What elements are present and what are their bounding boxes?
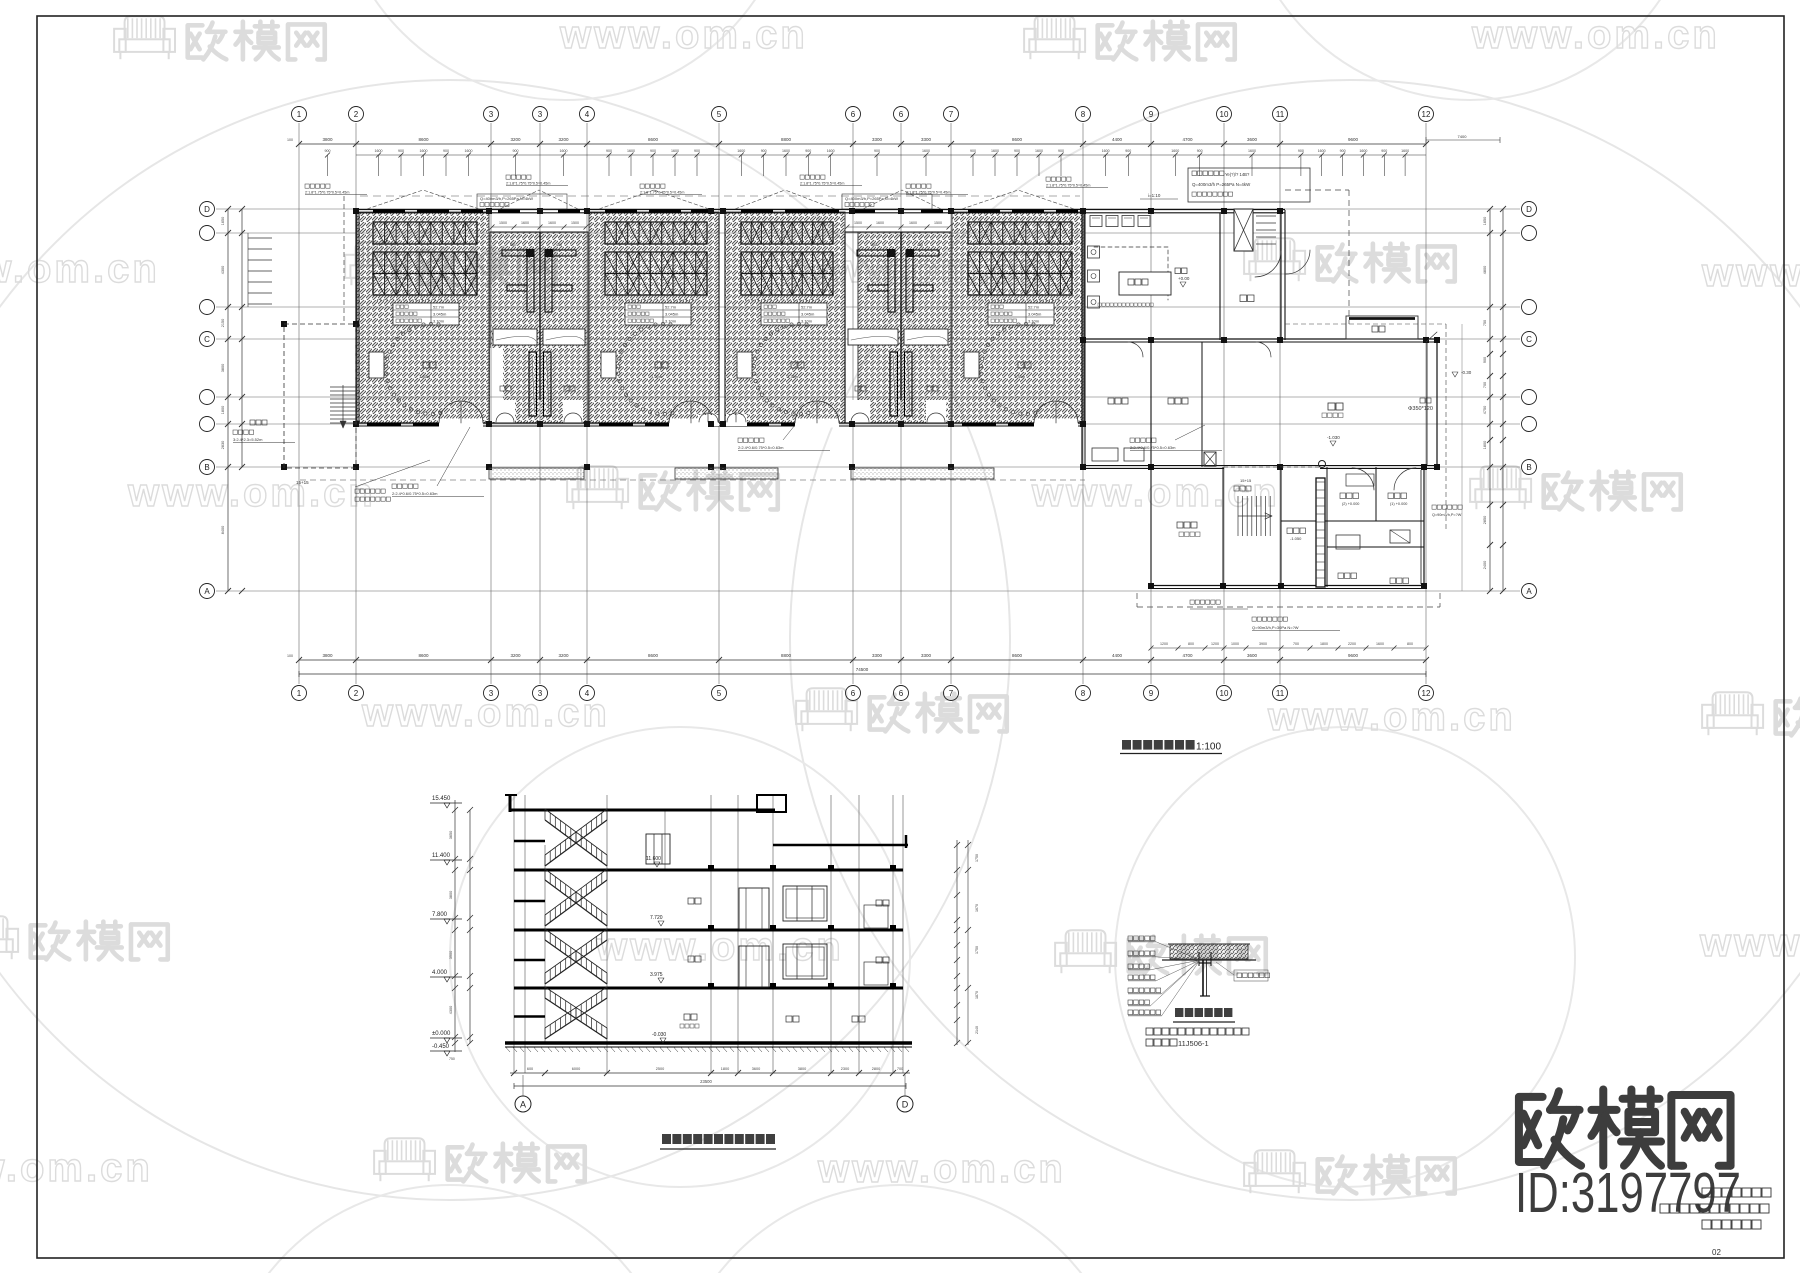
svg-text:1800: 1800 (1320, 642, 1328, 646)
svg-text:1600: 1600 (375, 149, 383, 153)
svg-text:11.400: 11.400 (432, 853, 451, 859)
svg-text:8: 8 (1081, 110, 1086, 119)
classroom 4 door (1034, 401, 1078, 428)
svg-text:Q=400m3/h P=265Pa N=4kW: Q=400m3/h P=265Pa N=4kW (1192, 182, 1251, 187)
axis bubbles right (1522, 202, 1537, 599)
svg-text:3:2.4*2.3=5.52m: 3:2.4*2.3=5.52m (233, 437, 263, 442)
classroom 2 bottom wall sills (599, 423, 677, 427)
svg-text:9600: 9600 (1348, 137, 1359, 142)
svg-text:+0.00: +0.00 (1178, 276, 1190, 281)
top wall sill segments (373, 209, 1078, 212)
svg-text:4400: 4400 (1112, 137, 1123, 142)
section: windows right rooms (783, 886, 827, 979)
svg-text:3300: 3300 (872, 653, 883, 658)
bottom leader annotations (233, 425, 1222, 501)
section: room labels (680, 898, 889, 1028)
svg-text:1.35m: 1.35m (787, 374, 799, 379)
svg-text:3.975: 3.975 (650, 972, 663, 978)
hatched classroom 2 (589, 212, 719, 423)
svg-text:1800: 1800 (721, 1067, 729, 1071)
office labels (1177, 474, 1410, 584)
svg-text:02: 02 (1712, 1248, 1721, 1257)
svg-text:2:2.4*0.6/0.75*0.5=0.63m: 2:2.4*0.6/0.75*0.5=0.63m (392, 491, 438, 496)
svg-text:1600: 1600 (1401, 149, 1409, 153)
svg-text:800: 800 (1407, 642, 1413, 646)
lower wing outer walls (1151, 467, 1424, 589)
skylight symbols (360, 190, 1080, 209)
toilet unit 2 vestibule dims (845, 221, 952, 230)
svg-text:5: 5 (717, 689, 722, 698)
dining room label (1240, 295, 1247, 302)
svg-text:7: 7 (949, 689, 954, 698)
svg-text:600: 600 (527, 1067, 533, 1071)
svg-text:7.720: 7.720 (650, 915, 663, 921)
svg-text:3900: 3900 (1259, 642, 1267, 646)
svg-text:8600: 8600 (648, 137, 659, 142)
svg-text:10: 10 (1220, 689, 1229, 698)
stair flight story 4 (514, 987, 607, 1039)
svg-text:1600: 1600 (909, 221, 917, 225)
svg-text:4300: 4300 (221, 266, 225, 274)
svg-text:52.7m: 52.7m (1028, 305, 1040, 310)
svg-text:2:1.8*1.75*0.75*0.5=0.45m: 2:1.8*1.75*0.75*0.5=0.45m (640, 191, 684, 195)
toilet unit 2 doors (850, 400, 946, 423)
pantry labels (1092, 398, 1216, 466)
classroom 4 teacher desk (964, 352, 979, 378)
svg-text:3.045m: 3.045m (665, 312, 679, 317)
axis bubbles bottom (292, 686, 1434, 701)
svg-text:1670: 1670 (975, 904, 979, 912)
svg-text:900: 900 (1197, 149, 1203, 153)
svg-text:1600: 1600 (1035, 149, 1043, 153)
entrance platform dashed (284, 324, 356, 468)
svg-text:-0.450: -0.450 (432, 1044, 450, 1050)
svg-text:Φ350*120: Φ350*120 (1408, 406, 1433, 412)
detail title (1173, 1008, 1235, 1022)
section: level marks left (430, 796, 462, 1056)
detail notes (1146, 1028, 1249, 1048)
lower wing partitions (1223, 467, 1424, 587)
svg-text:2:1.8*1.75*0.75*0.5=0.45m: 2:1.8*1.75*0.75*0.5=0.45m (906, 191, 950, 195)
section: floor slabs (514, 870, 903, 988)
svg-text:11.600: 11.600 (646, 856, 661, 862)
svg-text:-1.030: -1.030 (1327, 435, 1340, 440)
toilet unit 2 duct chases (857, 243, 939, 312)
svg-text:2: 2 (354, 110, 359, 119)
formula box (1188, 168, 1310, 202)
svg-text:www.om.cn: www.om.cn (1699, 921, 1800, 965)
svg-text:1870: 1870 (975, 991, 979, 999)
svg-text:52.7m: 52.7m (433, 305, 445, 310)
toilet unit 2 lower ducts (855, 352, 938, 416)
svg-text:11: 11 (1276, 689, 1285, 698)
svg-text:www.om.cn: www.om.cn (559, 13, 808, 57)
svg-text:4700: 4700 (1182, 653, 1193, 658)
svg-text:3200: 3200 (510, 137, 521, 142)
canopy dashed top right (1140, 190, 1349, 324)
detail: right label (1216, 962, 1270, 981)
dining room door arc (1255, 251, 1281, 277)
svg-text:6000: 6000 (572, 1067, 580, 1071)
svg-text:1600: 1600 (1318, 149, 1326, 153)
svg-text:2:2.4*0.6/0.75*0.5=0.63m: 2:2.4*0.6/0.75*0.5=0.63m (738, 445, 784, 450)
detail: leader labels (1128, 936, 1200, 1016)
stair flight story 3 (514, 929, 607, 984)
svg-text:Ye(?)/? 14B?: Ye(?)/? 14B? (1225, 172, 1250, 177)
svg-text:3200: 3200 (558, 653, 569, 658)
classroom 1 area table (393, 303, 459, 325)
svg-text:700: 700 (1293, 642, 1299, 646)
exterior wall top (356, 209, 1285, 211)
svg-text:3800: 3800 (221, 364, 225, 372)
svg-text:750: 750 (1483, 320, 1487, 326)
plan title (1120, 740, 1222, 754)
svg-text:Q=400m3/h,P=265Pa,N=4kW: Q=400m3/h,P=265Pa,N=4kW (845, 196, 898, 201)
toilet unit 2 center wall (900, 232, 902, 400)
svg-text:900: 900 (874, 149, 880, 153)
hatched classroom 1 (357, 212, 489, 423)
vestibule formulas (477, 194, 932, 209)
kitchen walls (1085, 210, 1437, 342)
svg-text:3600: 3600 (752, 1067, 760, 1071)
svg-text:8600: 8600 (418, 653, 429, 658)
svg-text:7: 7 (949, 110, 954, 119)
kitchen equipment (1088, 216, 1190, 309)
B-line dashes (300, 479, 1085, 481)
hatched classroom 3 (725, 212, 845, 423)
svg-text:www.om.cn: www.om.cn (0, 1146, 153, 1190)
svg-text:3650: 3650 (449, 831, 453, 839)
svg-text:3800: 3800 (449, 891, 453, 899)
svg-text:1600: 1600 (1171, 149, 1179, 153)
svg-text:A: A (520, 1100, 526, 1110)
svg-text:Q=90m3/h,P=?W: Q=90m3/h,P=?W (1432, 513, 1462, 517)
svg-text:D: D (204, 205, 210, 214)
svg-text:www.om.cn: www.om.cn (127, 471, 376, 515)
svg-text:12: 12 (1422, 689, 1431, 698)
svg-text:450: 450 (871, 243, 877, 247)
section: ground slab (505, 1043, 912, 1052)
svg-text:-0.30: -0.30 (1461, 370, 1472, 375)
svg-text:900: 900 (650, 149, 656, 153)
svg-text:2200: 2200 (1348, 642, 1356, 646)
svg-text:1650: 1650 (1483, 217, 1487, 225)
svg-text:3800: 3800 (798, 1067, 806, 1071)
classroom 4 area table (988, 303, 1054, 325)
svg-text:900: 900 (1014, 149, 1020, 153)
svg-text:4700: 4700 (1182, 137, 1193, 142)
svg-text:1600: 1600 (420, 149, 428, 153)
svg-text:900: 900 (606, 149, 612, 153)
svg-text:1600: 1600 (1102, 149, 1110, 153)
svg-text:3.045m: 3.045m (1028, 312, 1042, 317)
svg-text:52.7m: 52.7m (801, 305, 813, 310)
svg-text:2500: 2500 (656, 1067, 664, 1071)
section: level marks inner (646, 856, 666, 1043)
dumbwaiter lift (1234, 209, 1276, 251)
canopy dashed left vertical (343, 196, 345, 324)
svg-text:B: B (1526, 463, 1531, 472)
svg-text:1.35m: 1.35m (1014, 374, 1026, 379)
svg-text:900: 900 (1340, 149, 1346, 153)
svg-text:-0.030: -0.030 (652, 1032, 666, 1038)
svg-text:2: 2 (354, 689, 359, 698)
svg-text:900: 900 (1298, 149, 1304, 153)
section: axis bubbles (515, 1075, 913, 1112)
svg-text:Q=90m3/h,P=30Pa N=?W: Q=90m3/h,P=30Pa N=?W (1252, 625, 1299, 630)
svg-text:3: 3 (538, 110, 543, 119)
svg-text:1600: 1600 (922, 149, 930, 153)
dim 7400 top right (1426, 134, 1500, 143)
svg-text:2:1.8*1.75*0.75*0.5=0.45m: 2:1.8*1.75*0.75*0.5=0.45m (800, 182, 844, 186)
section: bottom dims (510, 1067, 910, 1089)
exterior wall left (355, 210, 357, 427)
svg-text:7400: 7400 (1458, 134, 1468, 139)
hatched toilet unit 1 (490, 232, 588, 423)
svg-text:2:1.8*1.75*0.75*0.5=0.45m: 2:1.8*1.75*0.75*0.5=0.45m (305, 191, 349, 195)
toilet unit 1 counters (493, 329, 585, 345)
titleblock text lines (1660, 1188, 1771, 1257)
svg-text:2150: 2150 (221, 319, 225, 327)
svg-text:1500: 1500 (571, 221, 579, 225)
section: penthouse window (646, 834, 670, 864)
svg-text:15.450: 15.450 (432, 796, 451, 802)
classroom 4 window/bed grid (968, 222, 1072, 300)
svg-text:2140: 2140 (975, 1026, 979, 1034)
axis grid lines (216, 123, 1520, 684)
svg-text:9: 9 (1149, 689, 1154, 698)
svg-text:900: 900 (443, 149, 449, 153)
classroom 2 teacher desk (601, 352, 616, 378)
svg-text:1: 1 (297, 110, 302, 119)
svg-text:6: 6 (899, 689, 904, 698)
svg-text:i=1:10: i=1:10 (1148, 193, 1161, 198)
svg-text:1600: 1600 (627, 149, 635, 153)
svg-text:2800: 2800 (872, 1067, 880, 1071)
svg-text:1.35m: 1.35m (651, 374, 663, 379)
classroom 4 chair circle (979, 322, 1037, 415)
section: toilet partitions (864, 905, 888, 985)
section: beams (708, 865, 896, 989)
svg-text:Q=400m3/h,P=265Pa,N=4kW: Q=400m3/h,P=265Pa,N=4kW (480, 196, 533, 201)
svg-text:800: 800 (1188, 642, 1194, 646)
svg-text:450: 450 (917, 243, 923, 247)
svg-text:www.om.cn: www.om.cn (1701, 251, 1800, 295)
site logo OMW (1519, 1089, 1731, 1165)
classroom 3 window/bed grid (741, 222, 833, 300)
svg-text:900: 900 (1125, 149, 1131, 153)
svg-text:1600: 1600 (521, 221, 529, 225)
entrance stair treads (250, 385, 357, 485)
svg-text:900: 900 (1483, 357, 1487, 363)
svg-text:3600: 3600 (1247, 653, 1258, 658)
svg-text:B: B (204, 463, 209, 472)
svg-text:3: 3 (489, 689, 494, 698)
svg-text:D: D (902, 1100, 909, 1110)
terrace canopy (1346, 316, 1418, 339)
pantry walls (1085, 324, 1462, 591)
svg-text:6: 6 (899, 110, 904, 119)
toilet unit 1 vestibule dims (490, 221, 589, 230)
classroom 1 teacher desk (369, 352, 384, 378)
classroom 3 door (795, 401, 839, 428)
left dimension lines (221, 206, 272, 594)
classroom 3 bottom wall sills (735, 423, 813, 427)
svg-text:3800: 3800 (322, 137, 333, 142)
svg-text:4400: 4400 (1112, 653, 1123, 658)
svg-text:900: 900 (398, 149, 404, 153)
svg-text:1500: 1500 (854, 221, 862, 225)
classroom 1 window/bed grid (373, 222, 477, 300)
classroom 2 chair circle (616, 322, 674, 415)
svg-text:www.om.cn: www.om.cn (1471, 13, 1720, 57)
section: roof slabs (505, 795, 908, 848)
svg-text:(2) +0.000: (2) +0.000 (1342, 502, 1359, 506)
axis bubbles top (292, 107, 1434, 122)
classroom 1 bottom wall sills (367, 423, 445, 427)
svg-text:8600: 8600 (1012, 653, 1023, 658)
section title (660, 1134, 776, 1149)
svg-text:1600: 1600 (876, 221, 884, 225)
toilet unit 1 doors (495, 400, 583, 423)
svg-text:1600: 1600 (991, 149, 999, 153)
svg-text:900: 900 (325, 149, 331, 153)
svg-text:9600: 9600 (1348, 653, 1359, 658)
svg-text:(1) +0.000: (1) +0.000 (1390, 502, 1407, 506)
corridor butterfly doors (698, 413, 747, 426)
walkway strip 3 (851, 468, 994, 479)
svg-text:3200: 3200 (510, 653, 521, 658)
svg-text:11J506-1: 11J506-1 (1178, 1039, 1209, 1048)
svg-text:1750: 1750 (975, 946, 979, 954)
stair 2 (1234, 478, 1272, 536)
svg-text:6: 6 (851, 689, 856, 698)
svg-text:1600: 1600 (1248, 149, 1256, 153)
svg-text:900: 900 (1381, 149, 1387, 153)
svg-text:1200: 1200 (1160, 642, 1168, 646)
svg-text:3300: 3300 (872, 137, 883, 142)
corridor gap walls mid (718, 213, 720, 423)
svg-text:900: 900 (761, 149, 767, 153)
svg-text:1600: 1600 (1359, 149, 1367, 153)
svg-text:10: 10 (1220, 110, 1229, 119)
svg-text:1600: 1600 (671, 149, 679, 153)
svg-text:www.om.cn: www.om.cn (0, 247, 160, 291)
svg-text:2300: 2300 (841, 1067, 849, 1071)
svg-text:D: D (1526, 205, 1532, 214)
svg-text:8600: 8600 (1012, 137, 1023, 142)
svg-text:100: 100 (287, 654, 293, 658)
stair flight story 1 (514, 809, 607, 866)
svg-text:2:1.8*1.75*0.75*0.5=0.45m: 2:1.8*1.75*0.75*0.5=0.45m (506, 182, 550, 186)
detail: ceiling hatch band (1162, 944, 1256, 960)
svg-text:900: 900 (805, 149, 811, 153)
section: right dim lines (954, 840, 979, 1046)
svg-text:C: C (1526, 335, 1532, 344)
svg-text:1.35m: 1.35m (419, 374, 431, 379)
hatched toilet unit 2 (858, 232, 951, 423)
wall grid8 vertical (1081, 210, 1083, 467)
svg-text:3.045m: 3.045m (801, 312, 815, 317)
lower wing annotations (1190, 505, 1462, 631)
detail: hanger and glass fin (1199, 952, 1211, 996)
svg-text:3300: 3300 (921, 653, 932, 658)
svg-text:15+15: 15+15 (296, 480, 309, 485)
svg-text:100: 100 (287, 138, 293, 142)
svg-text:1600: 1600 (465, 149, 473, 153)
svg-text:3: 3 (489, 110, 494, 119)
section: thin verticals (514, 795, 903, 1073)
stair flight story 2 (514, 869, 607, 926)
svg-text:1500: 1500 (499, 221, 507, 225)
svg-text:1: 1 (297, 689, 302, 698)
svg-text:www.om.cn: www.om.cn (817, 1147, 1066, 1191)
svg-text:8400: 8400 (221, 526, 225, 534)
svg-text:9: 9 (1149, 110, 1154, 119)
lower wing dashed apron (1137, 606, 1440, 608)
hall column and entry arcs (1319, 370, 1472, 490)
svg-text:1600: 1600 (548, 221, 556, 225)
bottom dimension lines (287, 642, 1429, 677)
svg-text:3: 3 (538, 689, 543, 698)
vent shaft (1316, 478, 1325, 587)
svg-text:8800: 8800 (781, 653, 792, 658)
svg-text:700: 700 (897, 1067, 903, 1071)
svg-text:900: 900 (513, 149, 519, 153)
svg-text:900: 900 (1058, 149, 1064, 153)
svg-text:23500: 23500 (700, 1079, 712, 1084)
classroom 3 teacher desk (737, 352, 752, 378)
svg-text:4: 4 (585, 689, 590, 698)
classroom 2 door (669, 401, 713, 428)
svg-text:A: A (204, 587, 210, 596)
svg-text:3800: 3800 (322, 653, 333, 658)
svg-text:74500: 74500 (856, 667, 869, 672)
classroom 3 area table (761, 303, 827, 325)
svg-text:3600: 3600 (1247, 137, 1258, 142)
svg-text:1800: 1800 (221, 406, 225, 414)
svg-text:1750: 1750 (975, 854, 979, 862)
svg-text:52.7m: 52.7m (665, 305, 677, 310)
svg-text:11: 11 (1276, 110, 1285, 119)
svg-text:15+15: 15+15 (1240, 478, 1252, 483)
svg-text:3900: 3900 (449, 951, 453, 959)
classroom 2 area table (625, 303, 691, 325)
svg-text:8600: 8600 (418, 137, 429, 142)
toilet unit 1 center wall (539, 232, 541, 400)
classroom 1 chair circle (384, 322, 442, 415)
toilet unit 1 duct chases (502, 243, 576, 312)
svg-text:900: 900 (970, 149, 976, 153)
svg-text:1600: 1600 (1376, 642, 1384, 646)
walkway strip 1 (489, 468, 584, 479)
svg-text:1600: 1600 (560, 149, 568, 153)
svg-text:C: C (204, 335, 210, 344)
svg-text:A: A (1526, 587, 1532, 596)
svg-text:450: 450 (556, 243, 562, 247)
classroom 4 bottom wall sills (962, 423, 1040, 427)
classroom 1 door (439, 401, 483, 428)
svg-text:5: 5 (717, 110, 722, 119)
svg-text:4750: 4750 (1483, 406, 1487, 414)
svg-text:4300: 4300 (449, 1006, 453, 1014)
axis bubbles left (200, 202, 215, 599)
hall door arcs (1128, 250, 1310, 357)
svg-text:-1.050: -1.050 (1290, 536, 1302, 541)
top dimension lines (287, 137, 1429, 176)
svg-text:6: 6 (851, 110, 856, 119)
classroom 2 window/bed grid (605, 222, 707, 300)
